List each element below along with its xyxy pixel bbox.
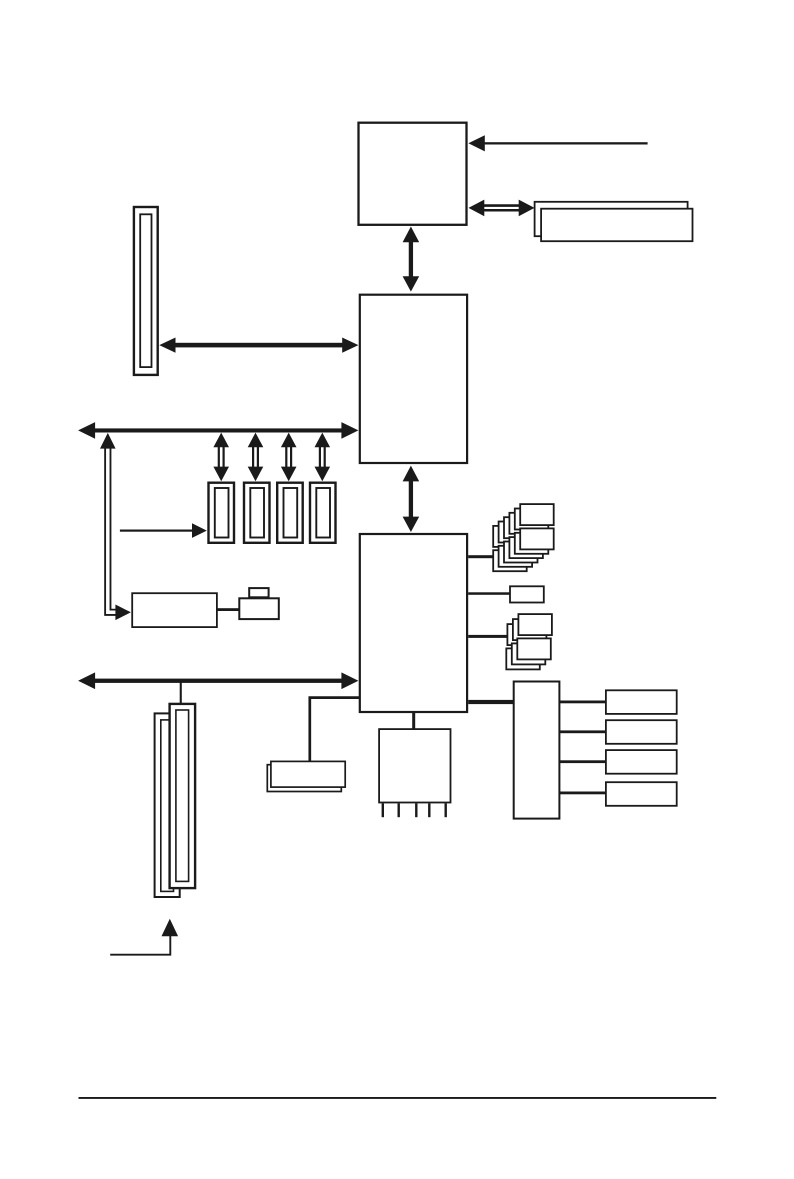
PCI slot 3 outer bbox=[277, 483, 303, 543]
floppy connector front bbox=[271, 761, 345, 787]
wire FSB (CPU to northbridge vertical double arrow) bbox=[403, 227, 420, 292]
PCI slot 2 outer bbox=[244, 483, 270, 543]
PCI slot 1 inner bbox=[215, 488, 229, 538]
USB port stack B (6 cascaded connectors, lower group) bbox=[493, 528, 554, 571]
LAN chip block bbox=[132, 593, 217, 627]
USB port stack A (6 cascaded connectors, upper group) bbox=[493, 504, 554, 547]
PCI slot 4 outer bbox=[310, 483, 336, 543]
wire slot branch 3 bbox=[281, 433, 297, 482]
northbridge block bbox=[360, 295, 467, 463]
DIMM module 1 (front) bbox=[541, 209, 692, 242]
wire NB to SB link (vertical double arrow) bbox=[403, 466, 420, 532]
audio codec block bbox=[514, 682, 560, 819]
southbridge block bbox=[360, 534, 467, 712]
wire codec to jack 3 bbox=[560, 760, 606, 763]
wire slot branch 2 bbox=[248, 433, 264, 482]
wire SB to audio codec (thick) bbox=[468, 700, 514, 704]
audio jack 1 bbox=[606, 690, 677, 714]
floppy connector back bbox=[267, 765, 341, 792]
IDE slot front outer bbox=[170, 704, 196, 888]
wire slot branch 4 bbox=[315, 433, 331, 482]
wire codec to jack 2 bbox=[560, 730, 606, 733]
RJ45 connector notch bbox=[249, 588, 268, 597]
wire LAN branch (double-line elbow from PCI bus down to LAN chip) bbox=[100, 433, 131, 620]
wire CPU input (single arrow into CPU right side) bbox=[468, 135, 647, 151]
IDE slot back inner bbox=[161, 720, 174, 892]
wire stub SB to single port bbox=[468, 592, 510, 595]
PCI slot 3 inner bbox=[284, 488, 298, 538]
wire L-shaped arrow into bottom slot bbox=[110, 919, 178, 955]
RJ45 connector body bbox=[239, 598, 278, 619]
wire SB to BIOS bbox=[412, 712, 415, 729]
BIOS pin 4 bbox=[428, 803, 430, 817]
AGP slot inner bbox=[140, 214, 151, 367]
single port block (COM/LPT) bbox=[510, 586, 544, 602]
wire memory bus (double-line double-headed arrow CPU to DIMMs) bbox=[469, 200, 535, 217]
PCI slot 4 inner bbox=[316, 488, 330, 538]
PCI slot 1 outer bbox=[209, 483, 235, 543]
BIOS pin 2 bbox=[398, 803, 400, 817]
wire LAN chip to RJ45 connector bbox=[217, 608, 239, 611]
IDE slot front inner bbox=[176, 710, 189, 881]
audio jack 3 bbox=[606, 750, 677, 774]
port stack C (3 cascaded connectors) bbox=[507, 614, 552, 645]
audio jack 4 bbox=[606, 782, 677, 806]
wire PCI bus lower (horizontal double arrow into southbridge) bbox=[78, 672, 358, 689]
wire arrow into slot 1 (horizontal single arrow) bbox=[120, 523, 207, 538]
PCI slot 2 inner bbox=[250, 488, 264, 538]
DIMM module 2 (back) bbox=[535, 202, 688, 236]
wire codec to jack 4 bbox=[560, 792, 606, 795]
wire codec to jack 1 bbox=[560, 701, 606, 704]
BIOS pin 5 bbox=[445, 803, 447, 817]
footer rule bbox=[79, 1097, 717, 1099]
BIOS block bbox=[379, 729, 450, 802]
wire SB to floppy connector (elbow) bbox=[310, 698, 360, 761]
port stack D (3 cascaded connectors) bbox=[506, 638, 551, 669]
wire AGP bus (slot to northbridge double arrow) bbox=[159, 338, 358, 353]
wire bus to bottom slots bbox=[180, 682, 182, 704]
AGP slot outer bbox=[134, 207, 158, 375]
BIOS pin 3 bbox=[415, 803, 417, 817]
wire slot branch 1 (bus to PCI slot 1 double arrow) bbox=[213, 433, 229, 482]
audio jack 2 bbox=[606, 720, 677, 744]
CPU block bbox=[359, 123, 467, 225]
IDE slot back outer bbox=[155, 713, 180, 897]
BIOS pin 1 bbox=[382, 803, 384, 817]
wire stub SB to USB ports bbox=[468, 555, 495, 558]
wire PCI bus upper (horizontal double arrow into northbridge) bbox=[78, 422, 358, 439]
wire stub SB to lower port stack bbox=[468, 635, 508, 638]
